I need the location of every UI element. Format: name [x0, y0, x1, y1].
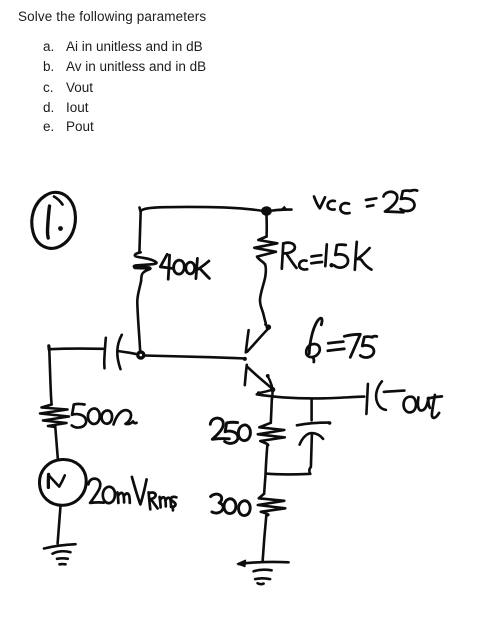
transistor Q1 emitter arrow: [257, 374, 275, 399]
list item d: [43, 101, 54, 115]
label 400K: [160, 254, 209, 279]
typed title: [18, 10, 206, 24]
resistor RB 400K: [134, 252, 157, 281]
wire base node to transistor base: [144, 356, 246, 359]
wire source to ground: [58, 506, 61, 544]
wire emitter to RE1: [271, 399, 272, 423]
resistor RE2 300: [258, 494, 286, 516]
list item e: [43, 120, 54, 134]
wire node E2 to RE2: [264, 474, 266, 494]
capacitor CE bypass: [297, 399, 332, 474]
wire C1 to base node: [118, 351, 137, 354]
resistor RE1 250: [258, 423, 285, 446]
list item b: [43, 60, 54, 74]
wire top rail to RB: [139, 211, 140, 252]
list item a: [43, 40, 54, 54]
source VS sine generator: [39, 459, 86, 505]
transistor Q1 emitter diagonal: [247, 366, 273, 389]
wire emitter horizontal: [257, 394, 365, 398]
label out: [404, 395, 442, 418]
wire RS to source: [55, 427, 58, 459]
wire Vcc top rail: [140, 207, 263, 211]
wire source branch vertical: [49, 350, 51, 405]
wire input left segment: [49, 346, 103, 350]
label Rc=1.5k: [282, 242, 372, 270]
wire RC to collector: [260, 264, 266, 323]
capacitor C2 output coupling: [366, 381, 386, 414]
wire Vcc node to RC: [265, 216, 268, 237]
node base junction dot: [138, 352, 144, 358]
ground emitter ground: [237, 560, 288, 584]
node Vcc junction dot: [261, 206, 291, 216]
transistor Q1 collector arrow: [265, 324, 271, 330]
label 300: [211, 494, 251, 515]
resistor RS 500 ohm: [40, 405, 69, 428]
wire RE1 to node E2: [266, 446, 268, 473]
transistor Q1 collector diagonal: [247, 329, 268, 352]
label beta=75: [306, 318, 377, 362]
transistor Q1 base bar: [243, 330, 249, 385]
ground source ground: [44, 544, 76, 564]
resistor RC 1.5k: [254, 237, 277, 265]
circled problem number 1.: [32, 192, 76, 248]
wire node E2 horizontal to bypass cap: [266, 472, 309, 475]
capacitor C1 input coupling: [104, 335, 122, 369]
wire C2 to out: [384, 391, 405, 392]
label 500 ohm: [72, 404, 137, 428]
wire RE2 to ground: [263, 516, 267, 562]
wire RB to base node: [137, 281, 141, 352]
list item c: [43, 81, 54, 95]
label Vcc=25: [314, 190, 417, 213]
label 250: [210, 418, 250, 443]
label 20mVrms: [88, 477, 176, 511]
